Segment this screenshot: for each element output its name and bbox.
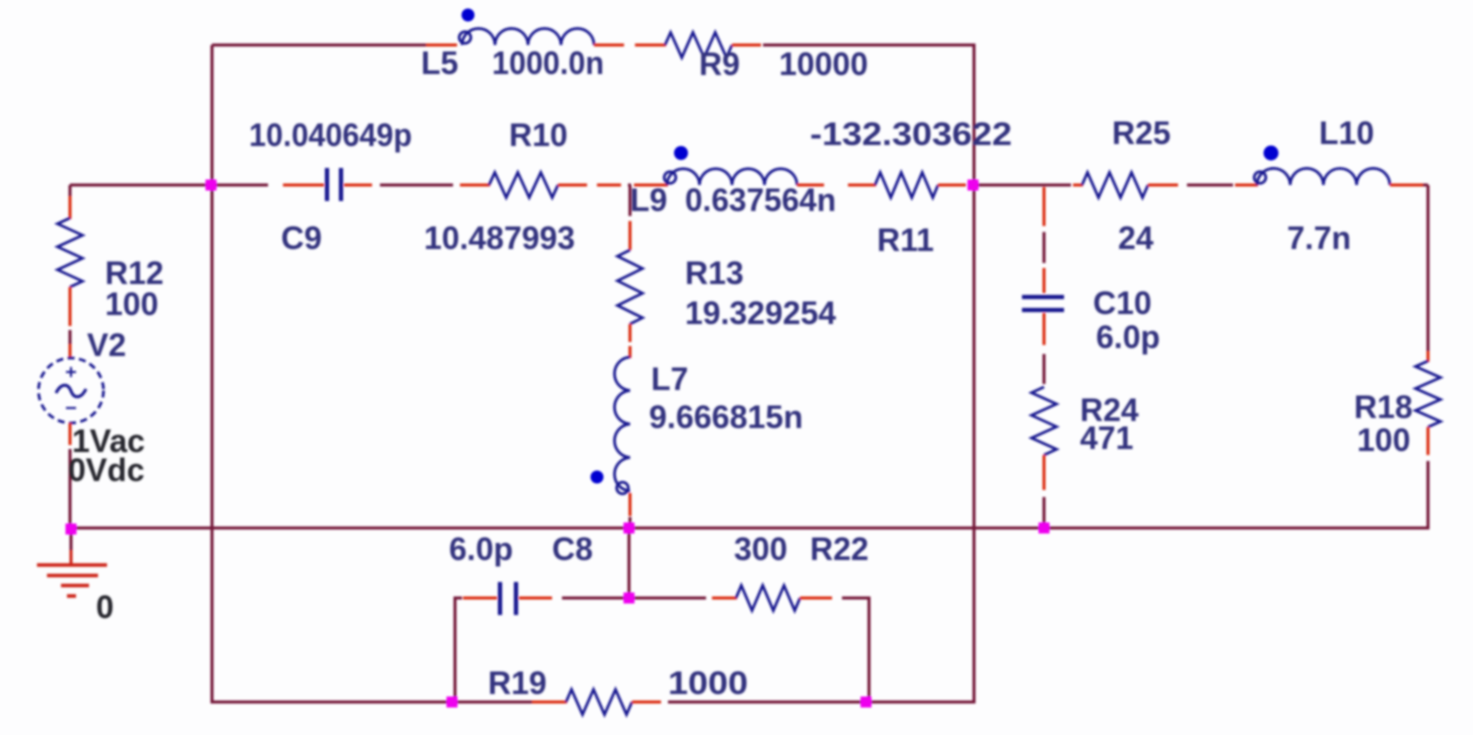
pin stub: R19 left pin (red) — [532, 701, 567, 704]
pin stub: L7 bottom pin (red) — [629, 493, 632, 516]
junction: ground node — [66, 524, 77, 535]
label R24 — [1080, 392, 1139, 428]
pin stub: L5 right pin (red) — [594, 44, 624, 47]
wire: R9 to top-right corner, right vertical of outer loop — [763, 44, 976, 704]
pin stub: R9 left pin (red) — [665, 44, 666, 47]
svg-text:0: 0 — [96, 589, 114, 625]
inductor L9 — [664, 169, 797, 185]
label L9 — [630, 182, 667, 218]
svg-text:R25: R25 — [1112, 115, 1171, 151]
wire: R22 right corner down to R19 row — [842, 597, 869, 703]
svg-text:9.666815n: 9.666815n — [649, 399, 803, 435]
dot marker: L5 dotted terminal — [462, 9, 475, 22]
pin stub: L9 right pin (red) — [797, 184, 824, 187]
svg-text:471: 471 — [1080, 420, 1133, 456]
value label 1000.0n (L5) — [492, 45, 604, 81]
wire: C8 to middle junction — [562, 597, 629, 600]
pin stub: L5 left pin (red) — [426, 44, 457, 47]
label C9 value 10.040649p — [249, 117, 412, 153]
pin stub: V2 minus pin (red) — [69, 423, 72, 445]
resistor R12 — [58, 218, 83, 287]
svg-text:V2: V2 — [87, 327, 126, 363]
pin stub: R10 right pin (red) — [558, 184, 587, 187]
pin stub: C10 top pin (red) — [1043, 268, 1046, 293]
pin stub: R13 top pin (red) — [629, 190, 632, 250]
wire: main ground row (bottom horizontal) — [71, 527, 1046, 530]
svg-text:24: 24 — [1118, 220, 1154, 256]
pin stub: R18 bottom pin (red) — [1427, 427, 1430, 455]
value label 100 (R12) — [105, 286, 158, 322]
dot marker: L10 dotted terminal — [1264, 146, 1279, 161]
svg-text:R9: R9 — [699, 46, 740, 82]
junction: node at left vertical crossing main row — [206, 180, 217, 191]
pin stub: V2 plus pin (red) — [69, 344, 72, 358]
inductor L7 — [614, 357, 630, 494]
value label 471 (R24) — [1080, 420, 1133, 456]
value label 9.666815n (L7) — [649, 399, 803, 435]
value label 1Vac (V2) — [72, 423, 145, 459]
pin stub: R25 right pin (red) — [1148, 184, 1178, 187]
junction: R24 bottom node on ground row — [1039, 523, 1050, 534]
svg-text:L9: L9 — [630, 182, 667, 218]
resistor R18 — [1416, 361, 1441, 427]
capacitor C9 — [327, 168, 341, 201]
svg-text:C9: C9 — [281, 220, 322, 256]
label R12 — [105, 255, 164, 291]
svg-text:10.040649p: 10.040649p — [249, 117, 412, 153]
value label 7.7n (L10) — [1287, 220, 1351, 256]
pin stub: R9 right pin (red) — [732, 44, 761, 47]
pin stub: R19 right pin (red) — [632, 701, 661, 704]
pin stub: R22 right pin (red) — [800, 597, 832, 600]
value label 300 (R22) — [734, 531, 787, 567]
label L7 — [651, 361, 688, 397]
svg-text:-132.303622: -132.303622 — [810, 116, 1012, 152]
pin stub: C10 branch top (red) from main row — [1043, 187, 1046, 226]
pin stub: C9 left pin (red) — [283, 184, 324, 187]
wire: vertical from middle node down to C8 row — [628, 528, 631, 598]
label V2 — [87, 327, 126, 363]
pin stub: L10 right pin (red) — [1390, 184, 1425, 187]
wire: C8 left corner down to R19 row — [455, 597, 462, 703]
wire: dash between L5 and R9 — [635, 44, 665, 47]
pin stub: R12 bottom pin (red) — [69, 287, 72, 326]
label R9 — [699, 46, 740, 82]
wire: R18 bottom to ground row corner — [1044, 461, 1428, 530]
wire: dash between R25 and L10 — [1187, 184, 1233, 187]
wire: ground stub below node — [70, 529, 73, 552]
svg-text:19.329254: 19.329254 — [685, 295, 836, 331]
resistor R25 — [1082, 173, 1148, 198]
value label 10.487993 (R10) — [424, 220, 575, 256]
wire: bottom segment from R19 right junction to bottom-right corner — [668, 701, 976, 704]
pin stub: C8 right pin (red) — [519, 597, 552, 600]
svg-text:100: 100 — [1357, 422, 1410, 458]
capacitor C8 — [500, 582, 516, 615]
svg-text:300: 300 — [734, 531, 787, 567]
svg-text:0Vdc: 0Vdc — [68, 452, 144, 488]
wire: dash between C10 and R24 — [1043, 354, 1046, 384]
svg-text:R22: R22 — [810, 531, 869, 567]
ground symbol 0 — [37, 550, 107, 596]
svg-text:100: 100 — [105, 286, 158, 322]
wire: junction to R25 — [973, 184, 1071, 187]
dot marker: L7 dotted terminal — [591, 471, 604, 484]
svg-text:R13: R13 — [685, 255, 744, 291]
pin stub: R11 left pin (red) — [848, 184, 876, 187]
wire: middle junction to R22 — [629, 597, 706, 600]
svg-text:R18: R18 — [1354, 389, 1413, 425]
label R11 — [877, 222, 934, 258]
label C9 — [281, 220, 322, 256]
value label 10000 (R9) — [779, 46, 868, 82]
pin stub: R13 bottom pin (red) — [629, 324, 632, 342]
svg-text:6.0p: 6.0p — [449, 531, 513, 567]
value label 24 (R25) — [1118, 220, 1154, 256]
pin stub: R22 left pin (red) — [712, 597, 737, 600]
pin stub: R18 top pin (red) — [1427, 351, 1430, 362]
wire: V2 branch top corner to C9 (main row) — [70, 185, 268, 196]
svg-text:1000: 1000 — [668, 665, 748, 701]
resistor R24 — [1032, 387, 1057, 455]
resistor R19 — [566, 690, 632, 715]
capacitor C10 — [1022, 297, 1064, 310]
wire: dash above C10 — [1043, 232, 1046, 263]
svg-text:C10: C10 — [1093, 285, 1152, 321]
label R22 — [810, 531, 869, 567]
label L10 — [1319, 115, 1374, 151]
label R10 — [509, 117, 568, 153]
svg-text:6.0p: 6.0p — [1096, 319, 1160, 355]
svg-text:10000: 10000 — [779, 46, 868, 82]
junction: R19 right node — [861, 697, 872, 708]
svg-text:L7: L7 — [651, 361, 688, 397]
wire: L7 to ground row — [629, 517, 632, 528]
junction: middle node on ground row — [624, 523, 635, 534]
label L5 — [421, 45, 458, 81]
svg-text:R11: R11 — [877, 222, 934, 258]
pin stub: C10 bottom pin (red) — [1043, 313, 1046, 345]
wire: dash between R10 and L9 node — [597, 184, 621, 187]
value label 0Vdc (V2) — [68, 452, 144, 488]
value label 6.0p (C10) — [1096, 319, 1160, 355]
pin stub: L10 left pin (red) — [1235, 184, 1258, 187]
resistor R10 — [489, 173, 558, 198]
pin stub: R25 left pin (red) — [1073, 184, 1083, 187]
wire: R24 to bottom row — [1043, 497, 1046, 528]
value label 100 (R18) — [1357, 422, 1410, 458]
svg-text:C8: C8 — [552, 531, 593, 567]
resistor R22 — [736, 586, 800, 611]
wire: top corner of R18 branch — [1423, 185, 1428, 351]
label C8 — [552, 531, 593, 567]
resistor R11 — [875, 173, 938, 198]
junction: R19 left node — [447, 697, 458, 708]
dot marker: L9 dotted terminal — [674, 146, 688, 160]
svg-text:L5: L5 — [421, 45, 458, 81]
svg-text:7.7n: 7.7n — [1287, 220, 1351, 256]
junction: C8 row node — [624, 593, 635, 604]
svg-text:0.637564n: 0.637564n — [685, 182, 836, 218]
resistor R9 — [665, 33, 732, 58]
value label 6.0p (C8) — [449, 531, 513, 567]
pin stub: R12 top pin (red) — [69, 196, 72, 219]
value label 1000 (R19) — [668, 665, 748, 701]
svg-text:10.487993: 10.487993 — [424, 220, 575, 256]
pin stub: R11 right pin (red) — [938, 184, 966, 187]
wire: R12 to V2 — [69, 330, 72, 344]
wire: left vertical of outer loop is above; bottom-left segment of loop — [211, 701, 533, 704]
value label -132.303622 (R11) — [810, 116, 1012, 152]
wire: top-left corner to L5 (top branch) — [212, 45, 426, 704]
wire: V2 to ground node — [69, 449, 72, 529]
pin stub: R10 left pin (red) — [460, 184, 490, 187]
pin stub: L7 top pin (red) — [629, 346, 632, 358]
label R25 — [1112, 115, 1171, 151]
svg-text:1000.0n: 1000.0n — [492, 45, 604, 81]
label R13 — [685, 255, 744, 291]
label C10 — [1093, 285, 1152, 321]
value label 0.637564n (L9) — [685, 182, 836, 218]
svg-text:R10: R10 — [509, 117, 568, 153]
wire: C9 to R10 — [380, 184, 453, 187]
inductor L10 — [1254, 168, 1390, 185]
label 0 (ground net) — [96, 589, 114, 625]
inductor L5 — [459, 29, 594, 46]
svg-text:R19: R19 — [488, 665, 547, 701]
label R18 — [1354, 389, 1413, 425]
value label 19.329254 (R13) — [685, 295, 836, 331]
voltage source V2 (AC source symbol) — [39, 358, 104, 423]
pin stub: C9 right pin (red) — [344, 184, 372, 187]
resistor R13 — [618, 250, 643, 324]
pin stub: R24 bottom pin (red) — [1043, 455, 1046, 490]
svg-text:L10: L10 — [1319, 115, 1374, 151]
pin stub: L9 left pin (red) — [634, 184, 668, 187]
junction: node at right vertical, main row — [968, 180, 979, 191]
label R19 — [488, 665, 547, 701]
wire: L9 node corner, vertical down to R13 — [628, 185, 631, 192]
pin stub: C8 left pin (red) — [463, 597, 497, 600]
